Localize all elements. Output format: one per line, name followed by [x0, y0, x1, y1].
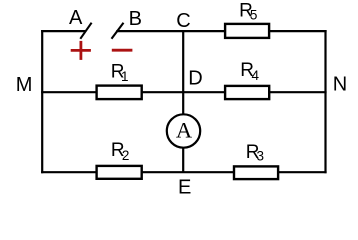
ammeter A	[167, 114, 200, 147]
wire: right vertical branch (N side)	[324, 30, 326, 173]
svg-text:B: B	[129, 8, 142, 30]
resistor R4	[225, 60, 269, 99]
svg-text:E: E	[178, 177, 191, 199]
battery polarity minus (red)	[112, 49, 133, 52]
svg-text:N: N	[333, 74, 347, 96]
terminal B contact slash	[112, 23, 124, 39]
resistor R1	[97, 61, 142, 99]
svg-text:D: D	[188, 67, 202, 89]
resistor R3	[234, 142, 278, 179]
wire: top segment from terminal B through node C to right corner	[116, 30, 326, 32]
svg-text:C: C	[176, 10, 190, 32]
svg-text:A: A	[69, 7, 83, 29]
resistor R2	[97, 140, 142, 179]
wire: center vertical C-D-E through ammeter	[182, 30, 184, 172]
battery polarity plus (red)	[71, 41, 91, 60]
svg-text:A: A	[176, 118, 193, 143]
svg-text:M: M	[16, 74, 33, 96]
wire: bottom horizontal wire	[41, 171, 327, 173]
wire: middle horizontal wire M to N	[41, 91, 327, 93]
terminal A contact slash	[80, 23, 91, 39]
wire: left vertical branch (M side)	[41, 30, 43, 173]
resistor R5	[225, 1, 269, 38]
wire: top-left segment to terminal A	[41, 30, 86, 32]
